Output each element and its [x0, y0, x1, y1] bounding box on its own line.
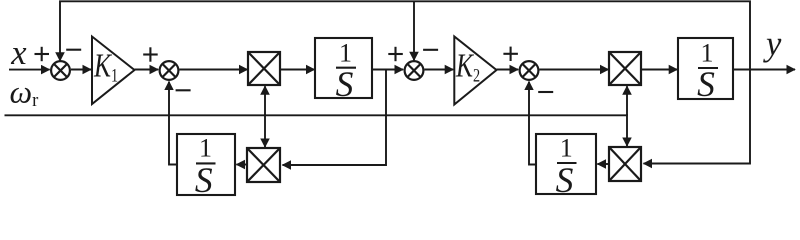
- wire omega branch up to M2 bottom: [626, 86, 628, 116]
- summing junction sum3: [405, 61, 424, 80]
- summing junction sum1: [51, 61, 70, 80]
- svg-text:S: S: [697, 64, 715, 104]
- summing junction sum2: [160, 61, 179, 80]
- wire top feedback line: [60, 1, 750, 69]
- minus sign at sum2: [176, 89, 191, 91]
- multiplier M4: [609, 147, 641, 181]
- wire B4 feedback up to sum4: [529, 82, 536, 165]
- plus sign at sum4: [503, 47, 518, 61]
- wire output feedback down to M4 right input: [644, 70, 751, 164]
- fraction bar B1: [336, 67, 356, 69]
- wire omega branch down to M4 top: [626, 114, 628, 146]
- fraction bar B2: [698, 67, 718, 69]
- integrator block B4: [536, 134, 596, 194]
- wire K1 to sum2: [135, 69, 159, 71]
- wire node branch down to M3 right input: [283, 70, 387, 166]
- minus sign at sum3: [423, 49, 438, 51]
- fraction bar B4: [557, 162, 577, 164]
- svg-text:K1: K1: [93, 46, 118, 86]
- wire omega branch up to M1 bottom: [264, 86, 266, 116]
- wire output y: [733, 69, 795, 71]
- fraction bar B3: [196, 162, 216, 164]
- svg-text:S: S: [195, 160, 213, 200]
- plus sign at sum3: [388, 47, 403, 61]
- minus sign at sum1: [66, 49, 81, 51]
- wire sum3 to K2: [424, 69, 453, 71]
- wire M4 output to integrator B4: [597, 163, 609, 165]
- svg-text:ωr: ωr: [10, 74, 39, 112]
- multiplier M2: [609, 52, 641, 85]
- wire M1 to integrator B1: [280, 69, 315, 71]
- svg-text:1: 1: [560, 134, 573, 163]
- wire K2 to sum4: [497, 69, 519, 71]
- multiplier M3: [247, 148, 280, 182]
- wire M3 output to integrator B3: [236, 164, 247, 166]
- wire M2 to integrator B2: [641, 69, 677, 71]
- svg-text:1: 1: [199, 134, 212, 163]
- svg-text:1: 1: [701, 39, 714, 68]
- wire B1 to sum3: [372, 69, 403, 71]
- svg-text:S: S: [336, 64, 354, 104]
- svg-text:K2: K2: [455, 46, 480, 86]
- multiplier M1: [248, 52, 280, 85]
- wire omega_r reference line: [5, 114, 628, 116]
- integrator block B2: [678, 38, 733, 99]
- minus sign at sum4: [538, 91, 553, 93]
- plus sign at sum2: [143, 47, 158, 61]
- amplifier triangle K1: [92, 37, 135, 105]
- integrator block B1: [315, 38, 372, 98]
- svg-text:y: y: [763, 25, 782, 63]
- wire sum1 to K1: [71, 69, 91, 71]
- wire sum2 to multiplier M1: [179, 69, 247, 71]
- svg-text:1: 1: [339, 39, 352, 68]
- integrator block B3: [177, 134, 235, 195]
- wire omega branch down to M3 top: [264, 114, 266, 147]
- amplifier triangle K2: [454, 37, 496, 105]
- wire B3 feedback up to sum2: [169, 82, 177, 165]
- svg-text:x: x: [10, 34, 27, 72]
- wire input x: [9, 69, 50, 71]
- wire top branch into summing junction 3: [413, 1, 415, 60]
- svg-text:S: S: [556, 160, 574, 200]
- plus sign at sum1: [35, 47, 50, 61]
- wire sum4 to multiplier M2: [539, 69, 608, 71]
- summing junction sum4: [520, 61, 539, 80]
